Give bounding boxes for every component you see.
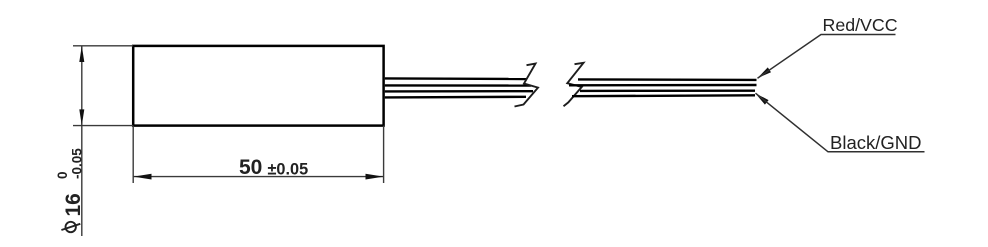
- length dimension line 50: [134, 176, 384, 178]
- svg-text:-0.05: -0.05: [70, 148, 85, 179]
- svg-text:Red/VCC: Red/VCC: [823, 15, 898, 35]
- leader line Black/GND: [756, 93, 925, 152]
- wire black right segment (two outline strokes): [572, 91, 755, 97]
- diameter dim arrow down: [79, 109, 84, 125]
- diameter dim arrow up: [79, 46, 84, 62]
- length dim arrow right: [366, 174, 384, 180]
- svg-text:50: 50: [239, 156, 262, 179]
- wire red right segment (two outline strokes): [569, 79, 757, 85]
- module body (cylinder side view): [133, 46, 383, 126]
- extension line top of diameter dimension: [73, 45, 133, 47]
- extension line bottom of diameter dimension: [73, 125, 133, 127]
- leader line Red/VCC: [758, 35, 896, 79]
- wire red left segment (two outline strokes): [385, 78, 531, 85]
- extension line left of length dimension: [132, 126, 134, 183]
- wire black left segment (two outline strokes): [385, 91, 533, 97]
- svg-text:0: 0: [55, 171, 70, 179]
- diameter dim text ⌀16 0/-0.05 (rotated): [55, 148, 85, 232]
- length dim arrow left: [134, 174, 152, 180]
- svg-text:16: 16: [62, 193, 85, 216]
- break mark left: [515, 64, 539, 107]
- leader arrow to black wire: [755, 93, 768, 104]
- diameter dimension line: [81, 46, 83, 236]
- extension line right of length dimension: [383, 126, 385, 183]
- svg-text:Black/GND: Black/GND: [830, 132, 922, 153]
- break mark right: [564, 63, 584, 106]
- svg-text:±0.05: ±0.05: [268, 161, 309, 179]
- leader arrow to red wire: [757, 67, 771, 78]
